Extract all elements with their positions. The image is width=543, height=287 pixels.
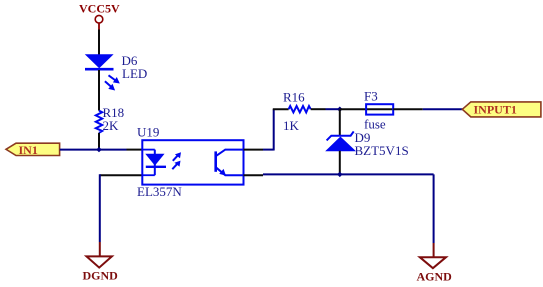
wire U19 emitter to AGND rail [244,174,264,176]
wire node C to AGND [340,173,434,175]
wire node B to fuse F3 [340,108,366,110]
fuse F3 [364,88,393,131]
resistor R16 1K [283,89,311,133]
svg-text:R16: R16 [283,89,305,104]
node B junction [337,107,343,112]
resistor R18 2K [96,105,124,133]
svg-text:U19: U19 [137,125,159,140]
wire fuse to INPUT1 [393,108,423,110]
power symbol VCC5V [79,2,120,30]
svg-text:BZT5V1S: BZT5V1S [355,143,409,158]
svg-text:EL357N: EL357N [137,184,182,199]
op-amp U19 optocoupler EL357N [137,125,244,200]
node C junction [337,172,343,177]
wire R16 to node B [311,108,326,110]
wire R18 to node A [98,133,100,151]
svg-text:2K: 2K [103,118,120,133]
ground DGND [83,256,119,282]
wire U19 collector to R16 [244,149,264,151]
diode D9 zener BZT5V1S [326,109,408,174]
wire D6 cathode to R18 [98,70,100,111]
ground AGND [417,257,453,283]
svg-text:AGND: AGND [417,269,453,283]
svg-text:F3: F3 [364,88,378,103]
port INPUT1 [462,102,541,117]
wire DGND branch [100,174,143,176]
svg-text:IN1: IN1 [19,143,38,157]
svg-text:LED: LED [122,66,147,81]
diode D6 (LED) [85,53,147,91]
wire IN1 to U19 anode [60,149,127,151]
svg-text:VCC5V: VCC5V [79,2,120,16]
svg-text:DGND: DGND [83,269,119,283]
svg-text:1K: 1K [283,118,300,133]
svg-text:INPUT1: INPUT1 [474,103,517,117]
wire VCC5V to D6 anode [98,30,100,56]
port IN1 [6,143,60,157]
node A junction [96,147,102,152]
